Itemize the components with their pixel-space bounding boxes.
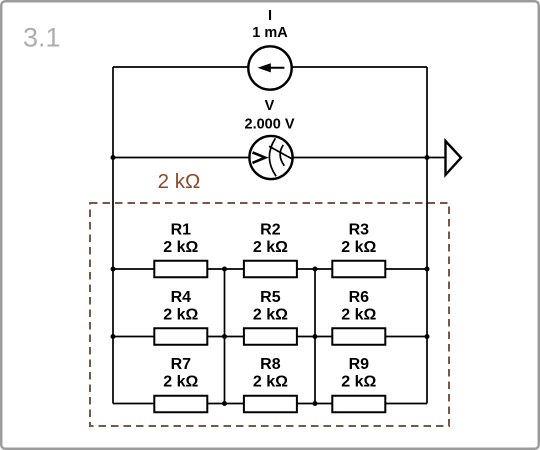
svg-text:2 kΩ: 2 kΩ [341, 307, 376, 324]
label R3 2 kOhm [341, 222, 376, 257]
output net flag triangle [446, 141, 462, 175]
wire stub to output flag [427, 157, 446, 159]
resistor R7 [154, 396, 207, 413]
equivalent resistance dashed box [90, 203, 449, 426]
label R9 2 kOhm [341, 356, 376, 391]
resistor R3 [332, 261, 385, 278]
label R1 2 kOhm [163, 222, 198, 257]
svg-text:2 kΩ: 2 kΩ [158, 170, 201, 193]
svg-text:2 kΩ: 2 kΩ [253, 239, 288, 256]
svg-text:2 kΩ: 2 kΩ [163, 239, 198, 256]
wire top from left bus to right bus [113, 66, 427, 68]
svg-text:2 kΩ: 2 kΩ [163, 307, 198, 324]
label R2 2 kOhm [253, 222, 288, 257]
resistor R8 [244, 396, 297, 413]
wire row 1 [113, 268, 427, 270]
svg-text:R3: R3 [349, 222, 370, 239]
junction right bus / row 2 [425, 334, 430, 339]
label R7 2 kOhm [163, 356, 198, 391]
svg-text:V: V [265, 98, 275, 114]
resistor R5 [244, 328, 297, 345]
svg-text:3.1: 3.1 [23, 23, 61, 53]
svg-text:I: I [268, 8, 272, 24]
resistor R2 [244, 261, 297, 278]
svg-text:1 mA: 1 mA [252, 25, 288, 41]
svg-text:R1: R1 [171, 222, 192, 239]
svg-text:R7: R7 [171, 356, 192, 373]
current source I [248, 46, 291, 89]
junction left bus / row 2 [111, 334, 116, 339]
label R6 2 kOhm [341, 289, 376, 324]
label R4 2 kOhm [163, 289, 198, 324]
svg-text:R6: R6 [349, 289, 370, 306]
junction left bus / voltmeter row [111, 155, 116, 160]
svg-text:R9: R9 [349, 356, 370, 373]
junction right bus / voltmeter row [425, 155, 430, 160]
label R5 2 kOhm [253, 289, 288, 324]
svg-text:2.000 V: 2.000 V [245, 116, 295, 132]
label R8 2 kOhm [253, 356, 288, 391]
wire middle bus B [314, 269, 316, 404]
svg-text:2 kΩ: 2 kΩ [341, 374, 376, 391]
junction right bus / row 1 [425, 267, 430, 272]
svg-text:2 kΩ: 2 kΩ [253, 307, 288, 324]
junction bus A / row 2 [222, 334, 227, 339]
svg-text:2 kΩ: 2 kΩ [341, 239, 376, 256]
junction bus B / row 2 [313, 334, 318, 339]
wire middle bus A [224, 269, 226, 404]
svg-text:2 kΩ: 2 kΩ [163, 374, 198, 391]
wire right bus [426, 67, 428, 404]
resistor R4 [154, 328, 207, 345]
wire row 3 [113, 403, 427, 405]
wire row 2 [113, 336, 427, 338]
resistor R9 [332, 396, 385, 413]
junction bus B / row 3 [313, 401, 318, 406]
svg-text:R2: R2 [260, 222, 281, 239]
junction bus B / row 1 [313, 267, 318, 272]
svg-text:2 kΩ: 2 kΩ [253, 374, 288, 391]
junction bus A / row 3 [222, 401, 227, 406]
svg-text:R5: R5 [260, 289, 281, 306]
junction left bus / row 1 [111, 267, 116, 272]
resistor R1 [154, 261, 207, 278]
svg-text:R8: R8 [260, 356, 281, 373]
wire left bus [112, 67, 114, 404]
junction bus A / row 1 [222, 267, 227, 272]
wire voltmeter row [113, 157, 427, 159]
voltmeter V [249, 136, 292, 179]
svg-text:R4: R4 [171, 289, 192, 306]
resistor R6 [332, 328, 385, 345]
